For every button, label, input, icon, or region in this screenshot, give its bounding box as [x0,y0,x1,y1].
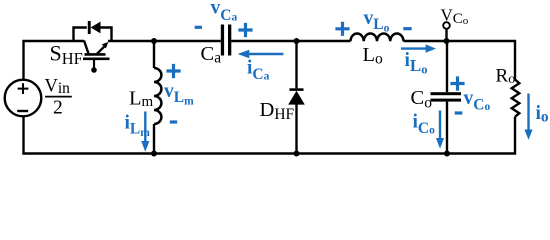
svg-text:iCa: iCa [247,58,270,84]
junction node C_o bottom [444,151,450,157]
inductor L_m [154,68,161,124]
svg-text:Vin: Vin [45,76,71,97]
current arrow i_Lm [125,112,151,152]
wire top middle (switch to C_a) [108,40,221,42]
junction node output top [444,38,450,44]
svg-text:vLo: vLo [364,8,390,35]
wire D_HF top stub [295,41,297,88]
label v_Ca with polarity [195,0,253,37]
label V_in/2 [45,76,72,118]
current arrow i_Ca [238,50,284,83]
label v_Co with polarity [450,76,490,113]
svg-text:Co: Co [411,87,433,111]
svg-text:DHF: DHF [260,99,295,123]
wire top-left from source to switch [24,41,85,80]
svg-text:vLm: vLm [164,81,194,108]
wire bottom loop [24,116,516,154]
wire L_m top stub [153,41,155,68]
wire D_HF bottom stub [295,105,297,154]
svg-text:VCo: VCo [441,5,469,27]
svg-text:vCo: vCo [464,88,491,114]
svg-text:SHF: SHF [50,41,83,68]
node V_Co terminal [443,22,450,29]
svg-text:iLo: iLo [405,50,428,77]
label v_Lo with polarity [335,8,411,36]
junction node D_HF bottom [294,151,300,157]
current arrow i_o [524,94,549,140]
transistor S_HF (switch) [83,41,110,73]
svg-text:Lm: Lm [129,88,154,110]
svg-text:Lo: Lo [363,44,384,68]
label v_Lm with polarity [164,64,194,122]
wire V_Co terminal stub [445,29,447,41]
junction node L_m bottom [151,151,157,157]
svg-text:Ca: Ca [201,43,222,67]
capacitor C_o [431,92,462,101]
junction node D_HF top [294,38,300,44]
current arrow i_Lo [401,44,436,76]
svg-text:vCa: vCa [211,0,238,24]
diode D_HF [288,88,305,104]
voltage source V_in/2 [5,80,42,117]
wire L_m bottom stub [153,124,155,154]
wire C_o top stub [446,41,448,92]
wire L_o end to top-right corner down to R_o [404,41,516,80]
svg-text:2: 2 [53,98,63,119]
svg-text:Ro: Ro [496,65,516,87]
capacitor C_a [221,25,232,56]
resistor R_o [512,80,520,117]
svg-text:iCo: iCo [413,112,436,138]
wire C_a to L_o [231,40,350,42]
inductor L_o [351,34,404,42]
anti-parallel diode of S_HF [74,21,112,41]
current arrow i_Co [413,111,445,149]
svg-text:io: io [536,103,549,126]
wire C_o bottom stub [446,102,448,154]
junction node L_m top [151,38,157,44]
